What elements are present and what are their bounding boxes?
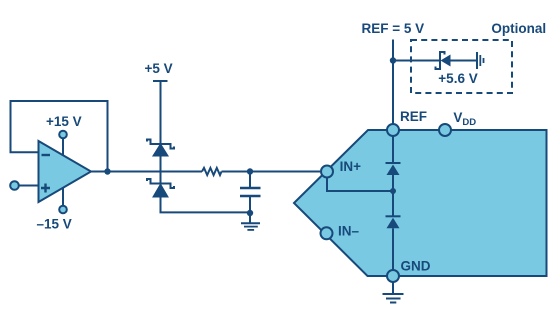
ground (GND pin) (383, 294, 404, 303)
wire junction to zener (393, 60, 440, 62)
wire zener anode to ground (451, 60, 478, 62)
pin GND (387, 270, 399, 282)
node output junction (104, 168, 110, 174)
esd diode D3 (upper internal) (386, 163, 401, 175)
optional dashed box (411, 40, 512, 93)
wire +5 V to D1 (160, 81, 162, 144)
pin IN- (321, 227, 333, 239)
op-amp plus sign (41, 184, 50, 193)
wire feedback loop (11, 101, 108, 172)
wire op-amp output (91, 171, 202, 173)
wire GND pin to ground (392, 282, 394, 294)
op-amp A1 (39, 141, 92, 202)
wire D3 anode to node (392, 175, 394, 191)
wire C1 junction to ground (249, 213, 251, 224)
supply +5 V rail bar (153, 80, 168, 82)
svg-text:–15 V: –15 V (37, 216, 72, 231)
node R1/C1 junction (247, 168, 253, 174)
terminal input circle (10, 181, 19, 190)
wire +15 V to op-amp (62, 138, 64, 156)
pin IN+ (321, 166, 333, 178)
wire C1 bottom stub (249, 196, 251, 213)
supply +15 V terminal (59, 131, 67, 139)
node internal diode junction (390, 188, 396, 194)
wire IN+ to internal node (327, 178, 393, 192)
wire REF vertical (392, 40, 394, 125)
wire R1 to C1 node (222, 171, 321, 173)
wire noninverting input (19, 185, 39, 187)
svg-text:IN+: IN+ (340, 159, 362, 174)
node C1 ground junction (247, 210, 253, 216)
pin REF (387, 124, 399, 136)
svg-text:+15 V: +15 V (46, 114, 82, 129)
schottky diode D2 (lower clamp) (147, 179, 174, 197)
svg-text:GND: GND (401, 258, 431, 273)
supply -15 V terminal (59, 206, 67, 214)
svg-text:+5 V: +5 V (145, 61, 173, 76)
pin VDD (439, 124, 451, 136)
svg-text:+5.6 V: +5.6 V (438, 71, 477, 86)
wire clamp node (D1 anode to signal wire) (160, 156, 162, 184)
svg-text:REF: REF (400, 109, 427, 124)
node REF/zener junction (390, 57, 396, 63)
wire D4 anode to GND pin (392, 228, 394, 276)
ground (zener, sideways) (477, 52, 484, 69)
svg-text:Optional: Optional (491, 21, 546, 36)
wire op-amp to -15 V (62, 187, 64, 206)
svg-text:IN–: IN– (338, 223, 360, 238)
ground (clamp/C1) (241, 223, 260, 230)
zener diode D5 (436, 52, 451, 69)
capacitor C1 (240, 188, 261, 196)
resistor R1 (202, 168, 222, 175)
wire C1 top stub (249, 172, 251, 189)
schottky diode D1 (upper clamp) (147, 140, 174, 156)
ADC block U1 (294, 130, 547, 276)
esd diode D4 (lower internal) (386, 216, 401, 228)
wire REF pin to D3 (392, 130, 394, 163)
svg-text:REF = 5 V: REF = 5 V (362, 21, 425, 36)
wire node to D4 (392, 191, 394, 216)
op-amp minus sign (42, 154, 51, 156)
wire D2 anode to ground rail (161, 197, 251, 213)
